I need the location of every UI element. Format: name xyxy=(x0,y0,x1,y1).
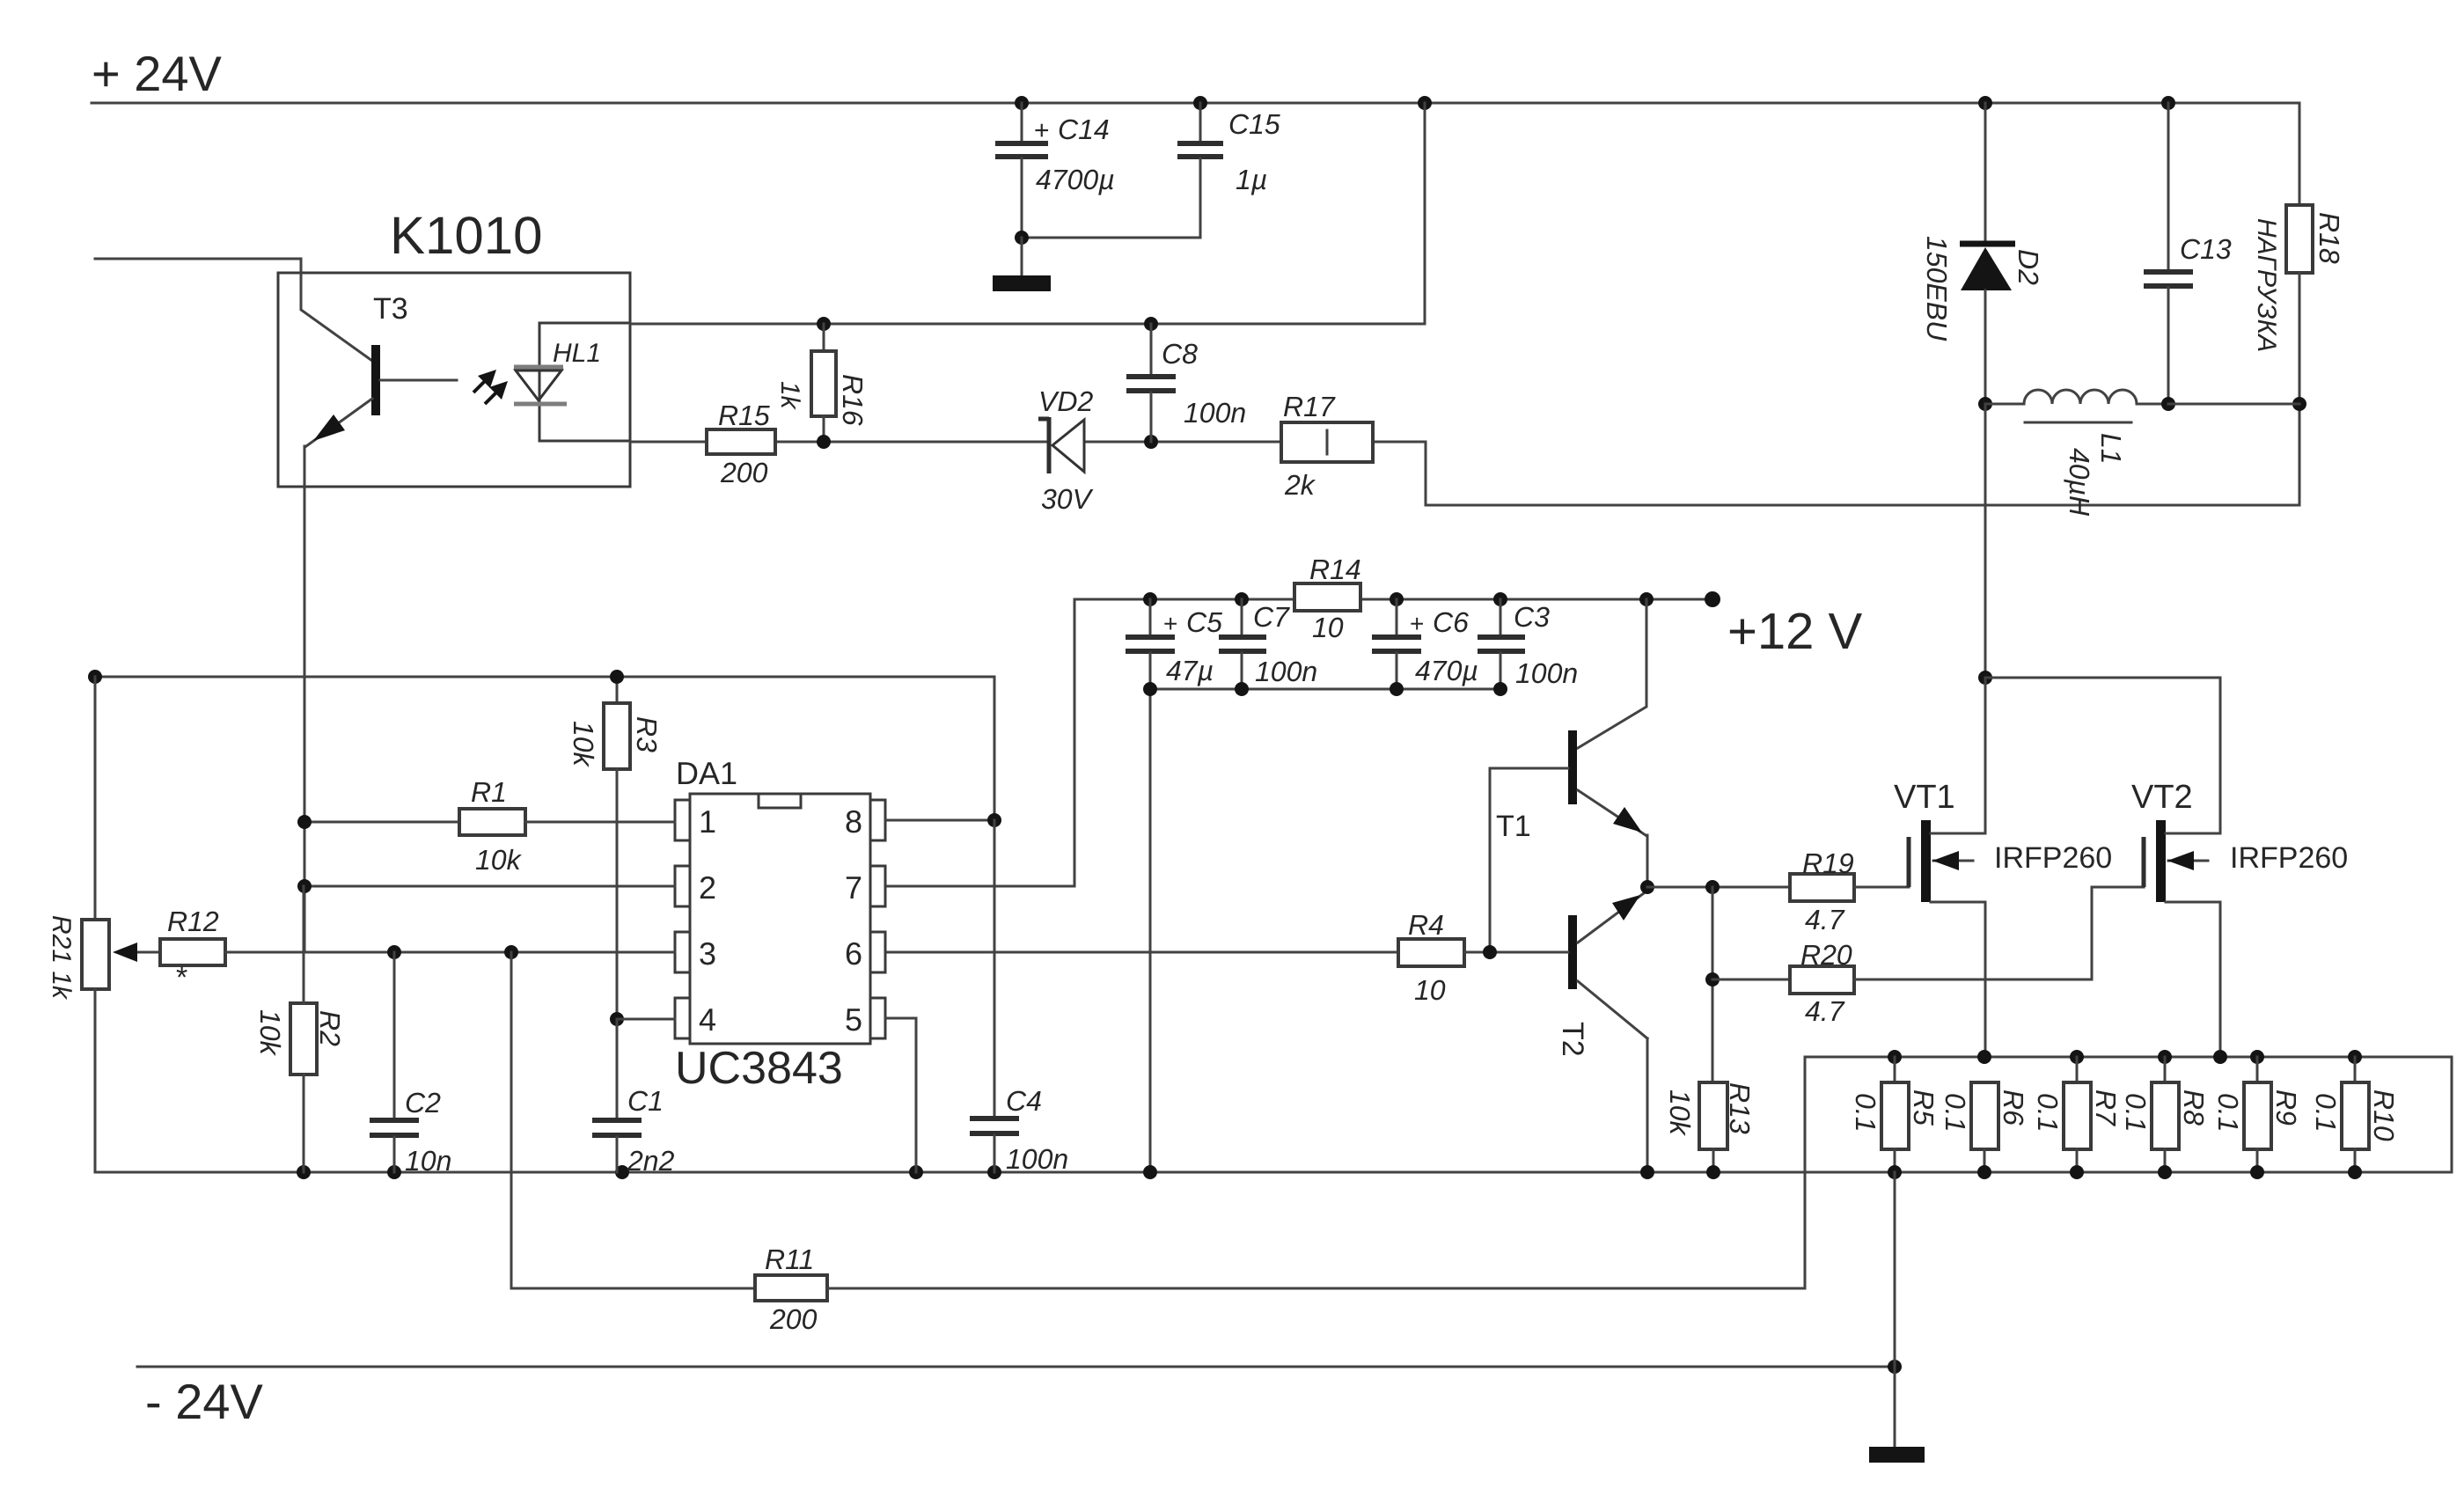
resistor R13 xyxy=(1664,1082,1756,1172)
svg-text:100n: 100n xyxy=(1515,657,1578,689)
svg-text:+12 V: +12 V xyxy=(1727,603,1862,660)
svg-text:R14: R14 xyxy=(1309,554,1361,585)
wire drain branch to VT2 xyxy=(1985,678,2220,833)
svg-text:1k: 1k xyxy=(775,381,804,411)
wire T3 collector feedback path xyxy=(95,259,372,361)
capacitor C15 xyxy=(1177,103,1280,238)
resistor R19 xyxy=(1790,847,1909,935)
svg-text:0.1: 0.1 xyxy=(2212,1093,2244,1132)
svg-text:C6: C6 xyxy=(1433,606,1469,638)
svg-text:+: + xyxy=(1410,610,1424,637)
svg-text:НАГРУЗКА: НАГРУЗКА xyxy=(2252,218,2281,352)
wire ground rail xyxy=(95,1165,2452,1179)
svg-text:C1: C1 xyxy=(627,1085,664,1117)
svg-text:T3: T3 xyxy=(373,292,408,326)
svg-text:200: 200 xyxy=(769,1303,818,1335)
svg-text:R9: R9 xyxy=(2270,1089,2302,1126)
svg-text:8: 8 xyxy=(845,803,862,840)
svg-text:2k: 2k xyxy=(1284,469,1316,501)
svg-text:- 24V: - 24V xyxy=(145,1374,263,1429)
svg-text:R10: R10 xyxy=(2368,1089,2400,1141)
transistor T3 xyxy=(306,292,457,446)
wire emitter node xyxy=(1640,880,1790,1082)
photon arrows xyxy=(473,370,508,404)
ground bar under C14 xyxy=(993,275,1051,291)
resistor R4 xyxy=(884,909,1568,1006)
svg-text:C8: C8 xyxy=(1162,338,1198,370)
resistor R12 xyxy=(160,906,675,994)
wire D2 anode node xyxy=(1978,397,1992,685)
svg-text:R21 1k: R21 1k xyxy=(47,915,76,1001)
svg-text:R19: R19 xyxy=(1802,847,1854,879)
wire filter ground bus xyxy=(1143,682,1507,1172)
transistor T2 xyxy=(1556,891,1647,1172)
svg-text:10k: 10k xyxy=(568,721,599,768)
svg-text:IRFP260: IRFP260 xyxy=(2230,841,2348,875)
zener VD2 xyxy=(1038,385,1094,515)
wire -24V rail xyxy=(137,1360,1902,1374)
svg-text:10k: 10k xyxy=(1664,1089,1696,1137)
svg-text:R11: R11 xyxy=(765,1243,814,1275)
resistor R15 xyxy=(707,400,775,488)
svg-text:C13: C13 xyxy=(2180,233,2232,265)
capacitor C6 xyxy=(1372,599,1478,689)
svg-text:IRFP260: IRFP260 xyxy=(1994,841,2112,875)
svg-text:VD2: VD2 xyxy=(1038,385,1093,417)
svg-text:150EBU: 150EBU xyxy=(1921,236,1953,341)
wire +24V top rail xyxy=(92,96,2299,205)
diode D2 xyxy=(1921,103,2044,404)
svg-text:0.1: 0.1 xyxy=(1940,1093,1971,1132)
svg-text:T2: T2 xyxy=(1556,1022,1589,1057)
svg-text:C3: C3 xyxy=(1514,601,1550,633)
svg-text:0.1: 0.1 xyxy=(2032,1093,2064,1132)
svg-text:HL1: HL1 xyxy=(553,339,601,368)
svg-text:R15: R15 xyxy=(718,400,770,431)
ground bottom xyxy=(1869,1172,1925,1463)
capacitor C4 xyxy=(970,820,1068,1175)
IC DA1 UC3843 xyxy=(675,755,885,1094)
resistor R5 xyxy=(1850,1057,1940,1172)
svg-text:R16: R16 xyxy=(837,374,869,426)
svg-text:R3: R3 xyxy=(631,716,663,752)
svg-text:470µ: 470µ xyxy=(1415,655,1478,686)
resistor R10 xyxy=(2310,1057,2400,1172)
svg-text:R1: R1 xyxy=(471,776,507,808)
svg-text:VT1: VT1 xyxy=(1894,779,1955,816)
svg-text:4: 4 xyxy=(699,1001,716,1038)
svg-text:+: + xyxy=(1163,610,1177,637)
svg-text:0.1: 0.1 xyxy=(2310,1093,2342,1132)
svg-text:10k: 10k xyxy=(475,844,523,876)
svg-text:47µ: 47µ xyxy=(1166,655,1214,686)
svg-text:40µH: 40µH xyxy=(2064,448,2095,517)
resistor R11 xyxy=(504,945,1805,1335)
capacitor C2 xyxy=(370,945,451,1177)
capacitor C13 xyxy=(2144,103,2232,411)
svg-text:R2: R2 xyxy=(314,1010,346,1046)
inductor L1 xyxy=(1985,390,2168,517)
svg-text:K1010: K1010 xyxy=(390,206,543,265)
resistor R6 xyxy=(1940,1082,2029,1172)
svg-text:100n: 100n xyxy=(1006,1143,1068,1175)
svg-text:C7: C7 xyxy=(1253,601,1290,633)
resistor R14 xyxy=(1294,554,1361,643)
svg-text:1: 1 xyxy=(699,803,716,840)
wire +12V rail xyxy=(884,591,1720,886)
wire load return xyxy=(1426,404,2299,505)
potentiometer R21 xyxy=(47,677,160,1172)
svg-text:10: 10 xyxy=(1312,612,1344,643)
capacitor C1 xyxy=(592,1012,675,1177)
svg-text:R7: R7 xyxy=(2090,1089,2122,1126)
resistor R20 xyxy=(1712,887,2144,1027)
svg-text:2n2: 2n2 xyxy=(627,1145,675,1177)
wire pin5 xyxy=(885,1018,916,1172)
svg-text:DA1: DA1 xyxy=(676,755,737,791)
wire pin2 xyxy=(297,879,675,893)
svg-text:D2: D2 xyxy=(2013,249,2044,285)
svg-text:5: 5 xyxy=(845,1001,862,1038)
svg-text:*: * xyxy=(176,961,187,994)
svg-text:30V: 30V xyxy=(1041,483,1094,515)
svg-text:4.7: 4.7 xyxy=(1805,904,1845,935)
svg-text:C2: C2 xyxy=(405,1087,441,1119)
svg-text:VT2: VT2 xyxy=(2131,779,2193,816)
svg-text:3: 3 xyxy=(699,935,716,972)
svg-text:7: 7 xyxy=(845,869,862,906)
wire VREF line xyxy=(88,670,994,820)
svg-text:6: 6 xyxy=(845,935,862,972)
capacitor C5 xyxy=(1126,599,1222,689)
svg-text:+ 24V: + 24V xyxy=(92,46,223,101)
svg-text:C15: C15 xyxy=(1228,108,1280,140)
svg-text:4.7: 4.7 xyxy=(1805,995,1845,1027)
capacitor C7 xyxy=(1219,599,1317,689)
resistor R2 xyxy=(254,886,346,1172)
svg-text:L1: L1 xyxy=(2095,433,2127,465)
optocoupler K1010 outer box xyxy=(278,273,630,487)
svg-text:UC3843: UC3843 xyxy=(675,1043,843,1094)
resistor R17 xyxy=(1281,391,1373,501)
svg-text:0.1: 0.1 xyxy=(1850,1093,1881,1132)
svg-text:C4: C4 xyxy=(1006,1085,1042,1117)
resistor R7 xyxy=(2032,1057,2122,1172)
capacitor C14 xyxy=(995,103,1115,238)
resistor R9 xyxy=(2212,1057,2302,1172)
svg-text:C5: C5 xyxy=(1186,606,1222,638)
resistor R3 xyxy=(568,677,663,1019)
resistor R16 xyxy=(775,324,869,442)
wire T3 emitter down xyxy=(304,446,306,952)
svg-text:+: + xyxy=(1034,116,1050,145)
svg-text:R12: R12 xyxy=(167,906,219,937)
svg-text:T1: T1 xyxy=(1496,810,1531,843)
wire pin7 to +12V xyxy=(0,0,1,1)
svg-text:R4: R4 xyxy=(1408,909,1444,941)
svg-text:10: 10 xyxy=(1414,974,1446,1006)
wire C14 C15 bottom join xyxy=(1015,231,1200,275)
MOSFET VT1 xyxy=(1894,678,2112,1057)
capacitor C8 xyxy=(1126,324,1246,442)
svg-text:R6: R6 xyxy=(1998,1089,2029,1126)
svg-text:200: 200 xyxy=(720,457,768,488)
LED HL1 xyxy=(514,323,630,441)
svg-text:R8: R8 xyxy=(2178,1089,2210,1126)
resistor R8 xyxy=(2120,1057,2210,1172)
wire R16 top rail branch xyxy=(630,103,1425,331)
svg-text:1µ: 1µ xyxy=(1236,164,1267,195)
MOSFET VT2 xyxy=(2131,779,2348,1057)
svg-text:4700µ: 4700µ xyxy=(1036,164,1115,195)
wire pin4 xyxy=(617,1018,675,1021)
svg-text:R20: R20 xyxy=(1800,939,1852,971)
wire source bus xyxy=(1805,1050,2452,1172)
svg-text:100n: 100n xyxy=(1255,656,1317,687)
resistor R1 xyxy=(297,776,675,876)
svg-text:0.1: 0.1 xyxy=(2120,1093,2152,1132)
resistor R18 load xyxy=(2168,205,2345,411)
svg-text:R18: R18 xyxy=(2314,212,2345,264)
svg-text:10n: 10n xyxy=(405,1145,451,1177)
svg-text:2: 2 xyxy=(699,869,716,906)
svg-text:100n: 100n xyxy=(1184,397,1246,429)
wire R15 VD2 R17 row xyxy=(630,435,1426,505)
transistor T1 xyxy=(1490,599,1647,952)
svg-text:10k: 10k xyxy=(254,1009,286,1057)
capacitor C3 xyxy=(1478,599,1578,689)
svg-text:R13: R13 xyxy=(1724,1082,1756,1134)
svg-text:R17: R17 xyxy=(1283,391,1336,422)
svg-text:C14: C14 xyxy=(1058,114,1110,145)
svg-text:R5: R5 xyxy=(1908,1089,1940,1126)
wire pin8 xyxy=(885,813,1001,827)
